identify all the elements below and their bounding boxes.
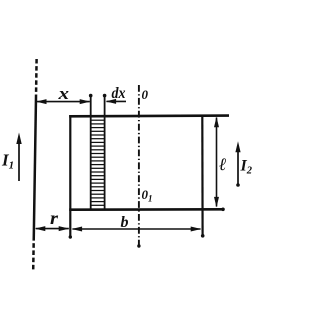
svg-text:b: b — [121, 214, 129, 231]
wire W1 straight conductor (dashed bottom) — [32, 236, 35, 270]
loop contour: right edge (extended below with end dot) — [201, 115, 204, 235]
current arrow I1 — [16, 133, 21, 182]
dimension r line with outward arrowheads — [35, 226, 69, 231]
axis O-O1 dash-dot centerline with bottom end dot — [138, 85, 140, 246]
dimension b line with outward arrowheads — [72, 227, 202, 232]
svg-text:I1: I1 — [1, 151, 14, 172]
loop contour: left edge (extended below with end dot) — [69, 115, 71, 237]
loop contour: bottom edge (extended right with end dot) — [69, 208, 223, 211]
current arrow I2 with bottom end dot — [235, 141, 240, 187]
dimension dx arrow (points left to strip) — [106, 99, 126, 104]
dimension l line with outward arrowheads — [214, 117, 219, 208]
strip element: hatching — [91, 120, 104, 205]
svg-text:I2: I2 — [240, 158, 253, 177]
strip element: left boundary with top dot — [90, 96, 92, 210]
svg-text:0: 0 — [142, 87, 149, 102]
dimension x line with outward arrowheads — [36, 99, 90, 104]
loop contour: top edge — [69, 114, 229, 117]
svg-text:dx: dx — [112, 85, 126, 102]
svg-text:r: r — [50, 208, 59, 228]
wire W1 straight conductor (dashed top) — [35, 59, 38, 97]
svg-text:01: 01 — [142, 187, 153, 204]
svg-text:x: x — [57, 84, 69, 103]
wire W1 straight conductor (solid middle) — [34, 97, 36, 236]
strip element: right boundary with top dot — [104, 96, 106, 210]
svg-text:ℓ: ℓ — [219, 154, 226, 174]
